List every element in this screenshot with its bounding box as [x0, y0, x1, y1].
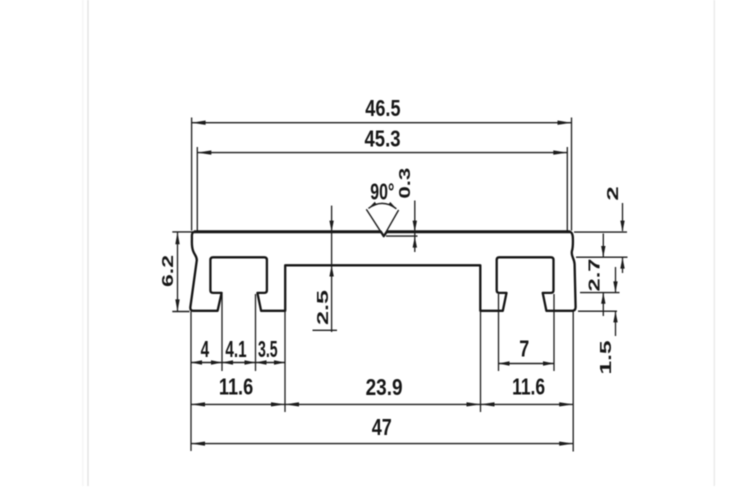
svg-text:45.3: 45.3 — [365, 126, 401, 152]
dimension 0.3 (notch depth) — [386, 168, 418, 252]
svg-text:4.1: 4.1 — [225, 337, 246, 363]
plate top face emphasis — [194, 230, 381, 233]
dimension 6.2 — [159, 232, 196, 312]
svg-text:4: 4 — [201, 337, 210, 363]
svg-text:11.6: 11.6 — [219, 374, 253, 400]
dimension 1.5 — [578, 267, 618, 375]
chained dimensions 4, 4.1, 3.5 — [191, 294, 285, 451]
dimensions 11.6, 23.9, 11.6 — [191, 311, 573, 452]
svg-text:23.9: 23.9 — [366, 375, 403, 401]
svg-text:6.2: 6.2 — [159, 255, 176, 287]
dimension 2.5 — [313, 206, 338, 332]
svg-text:7: 7 — [519, 336, 529, 362]
page edge left faint outer — [82, 0, 84, 486]
dimension 45.3 — [197, 126, 567, 230]
svg-text:0.3: 0.3 — [396, 168, 413, 199]
svg-text:3.5: 3.5 — [258, 337, 278, 363]
dimension 2 (plate thickness) — [574, 186, 628, 273]
dimension 47 (overall width) — [191, 415, 573, 446]
page edge right — [713, 0, 715, 486]
dimension 2.7 — [580, 234, 620, 317]
svg-text:47: 47 — [372, 415, 392, 441]
svg-text:2.5: 2.5 — [314, 290, 331, 325]
svg-text:1.5: 1.5 — [597, 340, 614, 374]
svg-text:2: 2 — [605, 186, 622, 200]
svg-text:90°: 90° — [370, 179, 394, 205]
svg-text:46.5: 46.5 — [365, 96, 400, 122]
dimension 7 (right T-slot width) — [499, 294, 555, 371]
angle dimension 90deg with V notch construction lines — [366, 179, 398, 236]
dimension 46.5 — [192, 96, 572, 231]
svg-text:2.7: 2.7 — [586, 259, 603, 292]
page edge left — [87, 0, 89, 486]
svg-text:11.6: 11.6 — [512, 374, 545, 400]
profile outline — [190, 232, 575, 311]
